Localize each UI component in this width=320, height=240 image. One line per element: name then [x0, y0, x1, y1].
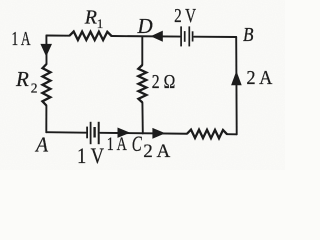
svg-text:C: C: [132, 131, 142, 156]
svg-text:2 A: 2 A: [246, 67, 273, 89]
svg-text:R: R: [84, 7, 97, 29]
svg-text:1 A: 1 A: [12, 29, 31, 50]
svg-text:2 Ω: 2 Ω: [152, 72, 176, 93]
svg-text:R: R: [15, 67, 29, 91]
svg-text:B: B: [243, 24, 254, 46]
svg-text:A: A: [34, 133, 48, 157]
svg-text:D: D: [137, 14, 153, 38]
svg-text:1 V: 1 V: [77, 143, 104, 168]
svg-text:2: 2: [31, 81, 38, 96]
svg-text:1: 1: [97, 16, 104, 31]
svg-text:2 V: 2 V: [174, 6, 196, 27]
svg-text:1 A: 1 A: [107, 135, 127, 155]
svg-text:2 A: 2 A: [143, 142, 171, 162]
